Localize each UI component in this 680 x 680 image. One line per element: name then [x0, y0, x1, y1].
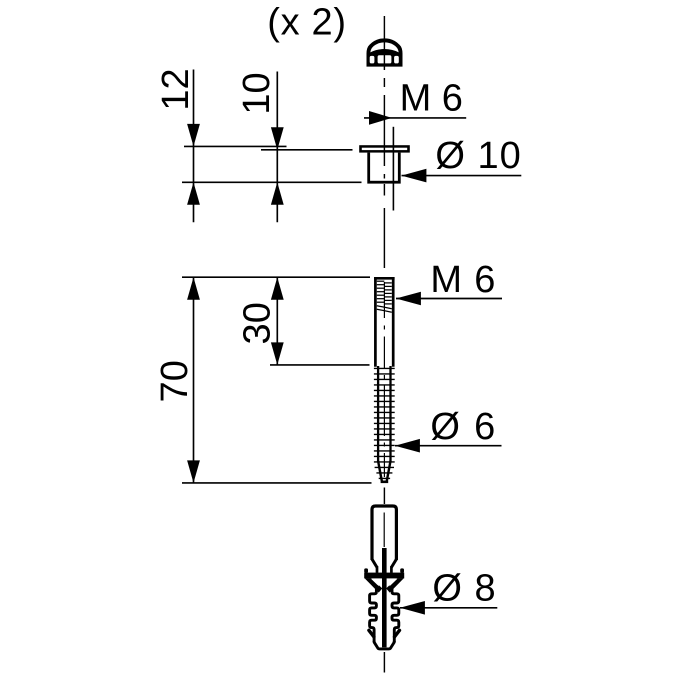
leader line diameter 6 (wood thread): [395, 445, 502, 447]
svg-text:Ø 8: Ø 8: [432, 568, 496, 610]
dimension line 10: [276, 72, 278, 223]
left barb: [369, 630, 374, 637]
centerline: [383, 16, 385, 673]
extension lines: [182, 146, 372, 483]
extension line sleeve top (dim 12): [184, 145, 287, 147]
arrowhead dim 10 top: [271, 127, 284, 150]
svg-text:12: 12: [155, 68, 197, 110]
arrowhead dim 12 bottom: [187, 182, 200, 205]
left fin profile: [370, 585, 377, 642]
dimension line 12: [193, 70, 195, 223]
arrowhead dim 70 bottom: [187, 460, 200, 483]
leader arrowhead diameter 8: [400, 601, 425, 615]
svg-text:M 6: M 6: [400, 77, 463, 119]
leader line M 6 (cap nut thread): [364, 117, 466, 119]
arrowhead dim 30 top: [271, 277, 284, 300]
wood thread core: [377, 366, 379, 463]
tip: [378, 461, 382, 481]
svg-text:Ø 10: Ø 10: [435, 135, 521, 177]
bottom foot: [374, 641, 394, 649]
arrowhead dim 30 bottom: [271, 342, 284, 365]
wood thread crests: [374, 368, 395, 478]
dimension line 30: [276, 277, 278, 365]
extension line screw tip (dim 70): [182, 482, 372, 484]
svg-text:Ø 6: Ø 6: [430, 406, 497, 448]
dimension lines: [194, 70, 278, 483]
svg-text:(x 2): (x 2): [267, 2, 347, 44]
leader lines and arrows: [364, 118, 521, 608]
collar: [364, 573, 404, 579]
arrowhead dim 70 top: [187, 277, 200, 300]
cap nut: [367, 38, 403, 66]
svg-text:M 6: M 6: [430, 259, 496, 301]
leader arrowhead diameter 10: [401, 169, 426, 183]
extension line sleeve bottom: [182, 181, 362, 183]
arrowhead dim 12 top: [187, 124, 200, 146]
extension line shank end (dim 30): [270, 364, 370, 366]
sleeve (top hat spacer): [359, 145, 410, 183]
thread reference line M6: [392, 127, 394, 211]
wings: [365, 578, 383, 592]
right fin profile: [392, 585, 399, 642]
screw (double ended stud): [374, 277, 395, 482]
machine thread hatch: [377, 281, 392, 312]
svg-text:10: 10: [236, 72, 278, 114]
center slot bar: [382, 548, 387, 647]
dimension arrowheads: [187, 124, 284, 483]
svg-text:30: 30: [236, 302, 278, 344]
svg-text:70: 70: [154, 360, 196, 402]
extension line flange underside (dim 10): [261, 149, 353, 151]
dimension line 70: [193, 277, 195, 483]
leader arrowhead M 6 top: [369, 111, 392, 125]
right barb: [395, 630, 400, 637]
leader line M 6 (machine thread): [396, 298, 502, 300]
leader arrowhead diameter 6: [395, 439, 420, 453]
wall plug: [364, 506, 404, 649]
leader line diameter 8 (wall plug): [400, 607, 497, 609]
top sleeve: [372, 506, 396, 560]
funnel: [372, 559, 377, 567]
extension line screw top (dims 70/30): [182, 276, 370, 278]
arrowhead dim 10 bottom: [271, 182, 284, 205]
leader arrowhead M 6 middle: [396, 292, 421, 306]
leader line diameter 10 (sleeve): [402, 175, 522, 177]
